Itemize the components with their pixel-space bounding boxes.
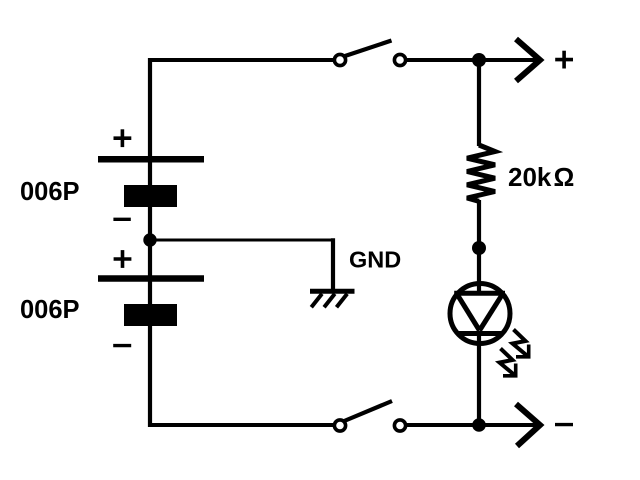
terminal arrow minus <box>516 404 540 446</box>
node between resistor and LED <box>472 241 486 255</box>
svg-text:20k Ω: 20k Ω <box>508 162 574 192</box>
switch S2 right contact <box>394 420 405 431</box>
svg-text:GND: GND <box>349 247 401 273</box>
svg-text:006P: 006P <box>20 178 80 206</box>
battery B1 minus mark <box>113 218 130 221</box>
wire bottom-left horizontal <box>148 423 334 427</box>
LED D1 triangle top chord <box>454 291 505 296</box>
wire junction to resistor <box>477 60 481 146</box>
node top-right junction <box>472 53 486 67</box>
battery B2 short plate <box>124 304 177 326</box>
LED D1 circle <box>450 284 510 344</box>
wire switch S1 to plus terminal <box>406 58 539 62</box>
LED D1 triangle right side <box>480 293 504 330</box>
wire LED cathode to bottom junction <box>477 333 481 427</box>
wire left vertical rail <box>148 58 152 427</box>
battery B2 minus mark <box>113 344 131 347</box>
switch S2 left contact <box>334 420 345 431</box>
node bottom-right junction <box>472 418 486 432</box>
battery B2 plus mark <box>114 250 132 268</box>
LED emission arrow 1 <box>513 330 529 357</box>
LED D1 triangle left side <box>457 293 480 330</box>
terminal arrow plus <box>516 39 540 81</box>
wire GND vertical drop <box>331 238 335 291</box>
wire switch S2 to minus terminal <box>406 423 539 427</box>
node battery midpoint <box>143 233 156 246</box>
LED emission arrow 2 <box>500 349 516 376</box>
switch S1 lever <box>344 41 392 57</box>
battery B2 long plate <box>98 275 204 282</box>
LED D1 cathode bar <box>457 331 504 336</box>
label minus terminal <box>555 423 573 426</box>
switch S1 right contact <box>394 54 405 65</box>
switch S2 lever <box>343 401 392 422</box>
resistor R1 zigzag <box>467 145 495 201</box>
switch S1 left contact <box>334 54 345 65</box>
battery B1 plus mark <box>114 129 132 147</box>
wire top-left horizontal <box>148 58 334 62</box>
label plus terminal <box>555 51 573 69</box>
wire midpoint to GND drop <box>150 239 335 242</box>
battery B1 long plate <box>98 156 204 163</box>
battery B1 short plate <box>124 185 177 207</box>
ground symbol <box>310 291 355 307</box>
wire resistor to LED anode <box>477 200 481 294</box>
svg-text:006P: 006P <box>20 296 80 324</box>
